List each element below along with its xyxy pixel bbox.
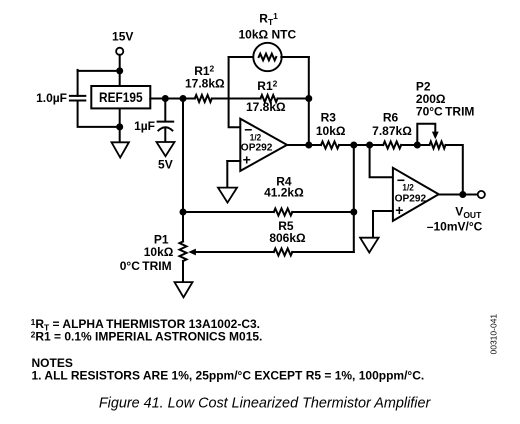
svg-text:5V: 5V — [158, 158, 173, 172]
svg-text:R6: R6 — [383, 111, 399, 125]
svg-text:+: + — [243, 152, 251, 168]
svg-text:41.2kΩ: 41.2kΩ — [264, 186, 304, 200]
svg-text:+: + — [395, 202, 403, 218]
svg-text:10kΩ: 10kΩ — [316, 124, 346, 138]
resistor R1 (left) 17.8k — [195, 95, 212, 102]
wire P2 wiper bracket — [417, 124, 435, 145]
wire left cap upper — [77, 70, 79, 96]
wire P1 to ground — [182, 261, 184, 282]
svg-text:806kΩ: 806kΩ — [269, 231, 306, 245]
wire loop right leg — [308, 57, 310, 145]
svg-text:R3: R3 — [321, 111, 337, 125]
node R4/R5 tap junction — [350, 142, 357, 149]
wire loop left leg — [229, 57, 241, 127]
node REF195 GND junction — [116, 123, 123, 130]
output terminal VOUT — [478, 191, 485, 198]
svg-text:–10mV/°C: –10mV/°C — [427, 219, 483, 233]
potentiometer P1 body — [180, 242, 187, 262]
svg-text:0°C TRIM: 0°C TRIM — [120, 259, 172, 273]
wire loop top-right — [281, 56, 309, 58]
wire top-left horizontal — [78, 70, 120, 72]
svg-text:1. ALL RESISTORS ARE 1%, 25ppm: 1. ALL RESISTORS ARE 1%, 25ppm/°C EXCEPT… — [32, 369, 425, 383]
node U1 output junction — [305, 142, 312, 149]
wire 1uF cap stem — [164, 99, 166, 122]
wire P2 to output leg — [446, 145, 463, 195]
node supply/cap junction — [116, 67, 123, 74]
svg-text:15V: 15V — [112, 30, 133, 44]
svg-text:17.8kΩ: 17.8kΩ — [185, 77, 225, 91]
svg-text:1µF: 1µF — [134, 119, 155, 133]
potentiometer P2 body — [430, 142, 446, 149]
P2 wiper arrowhead — [432, 132, 439, 140]
op-amp U1 1/2 OP292 — [240, 119, 287, 171]
ground below REF195 — [112, 142, 129, 157]
wire U1 output — [287, 144, 321, 146]
node P2 left junction — [414, 142, 421, 149]
svg-text:REF195: REF195 — [99, 89, 143, 105]
svg-text:7.87kΩ: 7.87kΩ — [372, 124, 412, 138]
wire U1 +in to ground — [226, 161, 228, 188]
wire R4 row right — [292, 211, 354, 213]
wire REF195 output — [150, 98, 195, 100]
svg-text:17.8kΩ: 17.8kΩ — [246, 100, 286, 114]
supply terminal 15V — [116, 48, 123, 55]
node R4 junction right — [350, 209, 357, 216]
ground below P1 — [175, 282, 193, 297]
wire U1 noninverting input — [227, 160, 240, 162]
node 5V decoupling junction — [162, 95, 169, 102]
svg-text:1/2: 1/2 — [250, 132, 261, 142]
wire U2 output — [439, 194, 478, 196]
resistor R5 806k — [274, 249, 293, 256]
wire 5V rail down — [182, 99, 184, 242]
resistor R4 41.2k — [274, 209, 293, 216]
wire R1-left to loop — [212, 98, 261, 100]
P1 wiper arrowhead — [188, 249, 196, 256]
wire R4 row left — [183, 211, 274, 213]
node VOUT junction — [459, 191, 466, 198]
resistor R6 7.87k — [383, 142, 401, 149]
wire U2 noninverting input — [373, 210, 393, 212]
ground below U1 — [218, 188, 237, 203]
svg-text:1/2: 1/2 — [402, 182, 413, 192]
wire R1-feedback to right leg — [278, 98, 309, 100]
wire REF195 GND down — [119, 108, 121, 142]
svg-text:10kΩ NTC: 10kΩ NTC — [238, 27, 296, 41]
svg-text:1.0µF: 1.0µF — [36, 91, 67, 105]
capacitor C2 1uF — [158, 121, 174, 123]
wire R6 to P2 — [401, 144, 429, 146]
wire R3 to R6 — [339, 144, 383, 146]
node 5V rail junction — [180, 95, 187, 102]
resistor R3 10k — [321, 142, 339, 149]
wire U2 +in to ground — [372, 211, 374, 238]
wire R5 row to P1 wiper — [194, 251, 274, 253]
svg-text:2R1 = 0.1% IMPERIAL ASTRONICS: 2R1 = 0.1% IMPERIAL ASTRONICS M015. — [31, 330, 263, 344]
node R4 junction left — [180, 209, 187, 216]
wire R5 row right — [292, 251, 354, 253]
svg-text:10kΩ: 10kΩ — [144, 245, 174, 259]
svg-text:70°C TRIM: 70°C TRIM — [416, 105, 475, 119]
capacitor C1 1.0uF plates — [70, 96, 85, 101]
wire left cap lower — [78, 101, 120, 127]
thermistor RT body — [253, 43, 281, 71]
wire U2 inverting branch — [370, 145, 393, 177]
ground below 1uF cap — [157, 142, 175, 156]
resistor R1 (feedback) 17.8k — [261, 95, 278, 102]
op-amp U2 1/2 OP292 — [393, 168, 439, 221]
node U2 inverting branch junction — [366, 142, 373, 149]
node R1/RT right junction — [305, 95, 312, 102]
svg-text:00310-041: 00310-041 — [489, 314, 499, 355]
regulator U3 REF195 box — [91, 86, 150, 108]
wire loop top-left — [229, 56, 254, 58]
ground below U2 — [360, 238, 379, 253]
wire tap down to R4/R5 — [353, 145, 355, 252]
svg-text:Figure 41. Low Cost Linearized: Figure 41. Low Cost Linearized Thermisto… — [99, 395, 432, 411]
wire 15V to REF195 VIN — [119, 55, 121, 86]
